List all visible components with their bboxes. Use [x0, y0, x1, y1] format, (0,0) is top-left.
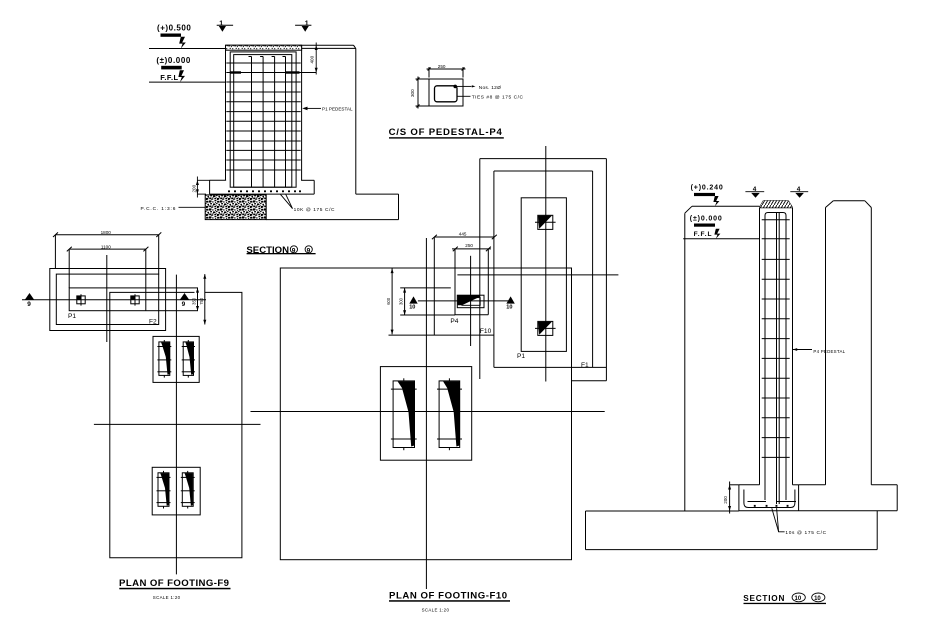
svg-text:(+)0.240: (+)0.240	[691, 185, 724, 192]
svg-text:PLAN OF FOOTING-F9: PLAN OF FOOTING-F9	[119, 578, 229, 589]
svg-text:250: 250	[465, 243, 473, 248]
svg-text:400: 400	[310, 55, 315, 63]
svg-text:F2: F2	[149, 318, 157, 325]
svg-text:9: 9	[182, 301, 186, 308]
svg-text:350: 350	[192, 297, 197, 305]
svg-text:SCALE 1:20: SCALE 1:20	[153, 595, 181, 600]
svg-text:4: 4	[753, 186, 757, 193]
svg-text:250: 250	[438, 64, 446, 69]
svg-text:(±)0.000: (±)0.000	[690, 216, 723, 223]
svg-text:300: 300	[410, 89, 415, 97]
svg-text:P1: P1	[517, 353, 525, 360]
svg-text:P.C.C. 1:3:6: P.C.C. 1:3:6	[141, 206, 177, 212]
svg-text:10: 10	[506, 305, 512, 311]
svg-text:1800: 1800	[101, 230, 112, 235]
svg-text:(+)0.500: (+)0.500	[157, 23, 191, 32]
svg-text:F10: F10	[480, 328, 492, 335]
svg-text:F1: F1	[581, 362, 589, 369]
svg-text:P1 PEDESTAL: P1 PEDESTAL	[322, 107, 353, 112]
svg-text:Nos. 12Ø: Nos. 12Ø	[479, 85, 501, 91]
svg-text:1: 1	[219, 21, 223, 28]
svg-text:200: 200	[723, 496, 728, 504]
svg-text:SCALE 1:20: SCALE 1:20	[422, 608, 450, 613]
svg-text:P1: P1	[68, 313, 76, 320]
svg-text:10K @ 175 C/C: 10K @ 175 C/C	[294, 207, 335, 213]
svg-text:10: 10	[409, 305, 415, 311]
svg-text:1100: 1100	[101, 244, 111, 249]
svg-text:750: 750	[199, 297, 204, 305]
svg-text:C/S OF PEDESTAL-P4: C/S OF PEDESTAL-P4	[389, 127, 503, 138]
svg-text:SECTION: SECTION	[743, 594, 785, 603]
svg-text:445: 445	[459, 231, 467, 236]
svg-text:PLAN OF FOOTING-F10: PLAN OF FOOTING-F10	[389, 591, 508, 602]
svg-text:TIES #8 @ 175 C/C: TIES #8 @ 175 C/C	[472, 95, 524, 101]
svg-text:9: 9	[27, 301, 31, 308]
svg-text:10s @ 175 C/C: 10s @ 175 C/C	[785, 530, 826, 536]
svg-text:(±)0.000: (±)0.000	[156, 56, 191, 65]
svg-text:P4 PEDESTAL: P4 PEDESTAL	[813, 349, 845, 354]
svg-text:4: 4	[797, 186, 801, 193]
svg-text:F.F.L: F.F.L	[694, 231, 713, 238]
svg-text:F.F.L: F.F.L	[160, 73, 178, 82]
svg-text:10: 10	[814, 596, 821, 602]
svg-text:600: 600	[386, 297, 391, 305]
svg-text:P4: P4	[450, 318, 458, 325]
svg-text:200: 200	[192, 184, 197, 192]
svg-text:1: 1	[305, 21, 309, 28]
svg-text:10: 10	[795, 596, 802, 602]
svg-text:300: 300	[398, 297, 403, 305]
